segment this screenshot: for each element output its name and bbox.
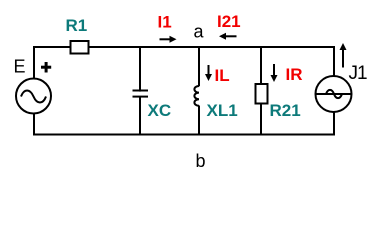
current arrow I1 <box>160 36 177 43</box>
svg-text:J1: J1 <box>349 63 368 84</box>
capacitor XC <box>133 91 149 97</box>
wire right vertical through J1 <box>333 46 335 136</box>
svg-text:IL: IL <box>215 66 230 85</box>
resistor R21 <box>256 84 268 104</box>
voltage source E <box>16 79 51 114</box>
svg-text:I21: I21 <box>217 12 241 31</box>
current arrow IR <box>271 64 278 82</box>
svg-text:XC: XC <box>148 101 172 120</box>
svg-text:a: a <box>194 22 205 42</box>
inductor XL1 <box>191 86 201 106</box>
resistor R1 <box>71 41 89 54</box>
wire R21 branch <box>260 47 262 135</box>
svg-text:E: E <box>14 56 26 76</box>
svg-text:IR: IR <box>286 65 303 84</box>
current arrow I21 <box>219 33 237 40</box>
wire left vertical through E <box>33 46 35 136</box>
svg-text:b: b <box>196 151 206 171</box>
svg-text:R21: R21 <box>270 101 301 120</box>
current arrow J1 <box>340 43 347 68</box>
plus sign of E <box>41 62 51 73</box>
wire XC branch <box>139 47 141 135</box>
svg-text:XL1: XL1 <box>207 101 238 120</box>
current source J1 <box>316 76 352 112</box>
current arrow IL <box>205 65 212 81</box>
wire top horizontal from E to J1 <box>33 46 335 48</box>
svg-text:R1: R1 <box>66 16 88 35</box>
wire XL1 branch <box>198 47 200 135</box>
wire bottom horizontal from E to J1 <box>33 134 335 136</box>
svg-text:I1: I1 <box>158 12 172 31</box>
